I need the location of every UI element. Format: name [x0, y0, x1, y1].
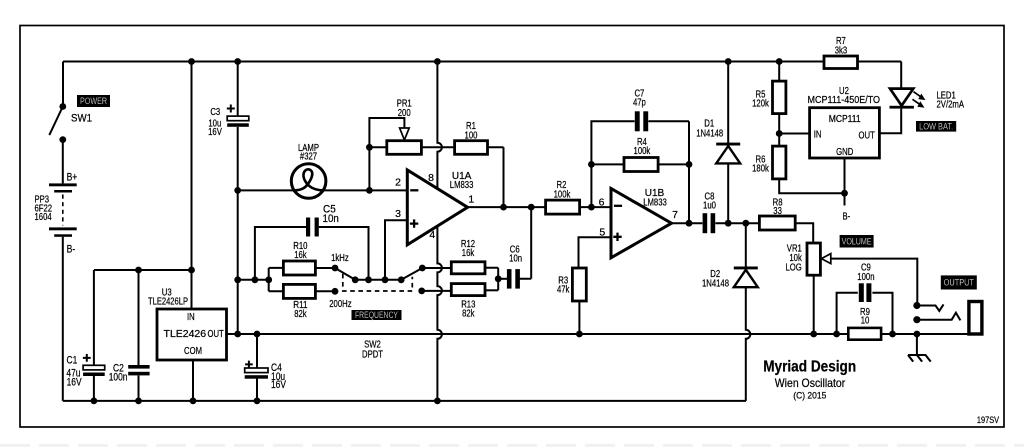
resistor R9	[848, 307, 881, 340]
switch SW2 pole1	[329, 253, 422, 310]
svg-text:16V: 16V	[67, 376, 83, 388]
svg-text:47p: 47p	[633, 98, 646, 109]
svg-text:1u0: 1u0	[703, 201, 716, 212]
svg-text:16k: 16k	[462, 248, 474, 259]
resistor R11	[283, 284, 335, 320]
svg-text:10n: 10n	[323, 213, 339, 225]
svg-text:200: 200	[398, 108, 411, 119]
svg-text:47k: 47k	[557, 285, 569, 296]
capacitor C8	[703, 191, 717, 233]
capacitor C3	[208, 62, 249, 139]
diode D1	[696, 62, 740, 224]
svg-text:LOW BAT.: LOW BAT.	[919, 121, 953, 131]
svg-text:B-: B-	[67, 243, 76, 255]
svg-text:4: 4	[429, 229, 435, 241]
svg-text:MCP111-450E/TO: MCP111-450E/TO	[808, 95, 881, 106]
resistor R6	[752, 146, 844, 193]
svg-text:B+: B+	[67, 171, 78, 183]
wire U1B output	[672, 220, 760, 227]
svg-text:TLE2426LP: TLE2426LP	[148, 296, 188, 307]
svg-text:100n: 100n	[109, 371, 128, 383]
svg-text:197SV: 197SV	[977, 415, 1000, 425]
capacitor C4	[245, 334, 287, 401]
svg-text:16V: 16V	[208, 127, 222, 138]
svg-text:8: 8	[428, 172, 434, 184]
svg-text:200Hz: 200Hz	[329, 299, 351, 310]
wire U1A pin3	[385, 220, 407, 279]
resistor R10	[283, 241, 335, 275]
OUTPUT label	[941, 275, 977, 289]
svg-text:1: 1	[468, 193, 474, 205]
svg-text:82k: 82k	[294, 309, 306, 320]
svg-text:OUT: OUT	[859, 130, 875, 141]
capacitor C2	[109, 363, 150, 401]
wire C1-C2 top	[94, 267, 195, 366]
POWER label	[77, 95, 110, 107]
wire bottom rail	[63, 398, 746, 405]
doc number 197SV	[977, 415, 1000, 425]
capacitor C6	[495, 207, 531, 289]
switch SW1	[49, 62, 92, 184]
capacitor C5	[255, 204, 369, 280]
svg-text:1kHz: 1kHz	[331, 253, 349, 264]
svg-text:IN: IN	[187, 312, 195, 323]
resistor R8	[759, 198, 813, 244]
svg-text:POWER: POWER	[80, 96, 107, 106]
battery PP3	[35, 171, 78, 401]
svg-text:100: 100	[465, 131, 478, 142]
svg-text:3k3: 3k3	[835, 45, 848, 56]
IC U3 TLE2426	[148, 62, 227, 401]
wire U1A pin4 to 0V (hops)	[437, 226, 442, 401]
resistor R12	[451, 239, 498, 290]
svg-text:C3: C3	[210, 107, 220, 118]
wire +V top rail	[63, 58, 901, 65]
svg-text:120k: 120k	[752, 98, 769, 109]
svg-text:LM833: LM833	[450, 180, 474, 191]
svg-text:(C) 2015: (C) 2015	[793, 390, 826, 400]
diode D2	[702, 223, 758, 401]
svg-text:B-: B-	[843, 212, 851, 223]
LOW BAT. label	[916, 121, 956, 132]
trimmer PR1	[366, 98, 455, 190]
capacitor C9	[837, 263, 893, 334]
svg-text:OUT: OUT	[207, 329, 223, 340]
svg-text:2V/2mA: 2V/2mA	[937, 100, 965, 111]
resistor R13	[451, 284, 498, 320]
svg-text:VOLUME: VOLUME	[842, 236, 872, 246]
svg-text:7: 7	[672, 209, 678, 221]
svg-text:10: 10	[861, 315, 870, 326]
resistor R1	[455, 121, 504, 207]
lamp LA1 #327	[238, 143, 408, 198]
title Myriad Design	[763, 358, 856, 400]
svg-text:Myriad Design: Myriad Design	[763, 358, 856, 375]
svg-text:#327: #327	[300, 152, 317, 163]
svg-text:GND: GND	[836, 147, 853, 158]
svg-text:16k: 16k	[294, 250, 306, 261]
LED1	[890, 62, 965, 111]
svg-text:OUTPUT: OUTPUT	[944, 278, 975, 288]
switch SW2 linkage (dashed)	[343, 274, 413, 361]
resistor R7	[824, 36, 858, 69]
capacitor C1	[66, 354, 104, 401]
wire mid virtual-ground rail	[227, 331, 969, 338]
resistor R4	[588, 137, 692, 172]
svg-text:82k: 82k	[462, 309, 474, 320]
svg-text:LM833: LM833	[643, 197, 667, 208]
output jack J1	[913, 302, 982, 335]
svg-text:C1: C1	[67, 355, 78, 367]
svg-text:COM: COM	[184, 346, 202, 357]
svg-text:16V: 16V	[271, 379, 287, 391]
svg-text:1N4148: 1N4148	[696, 128, 723, 139]
resistor R2	[546, 180, 580, 214]
svg-text:10n: 10n	[509, 253, 522, 264]
ground	[908, 334, 931, 362]
svg-text:100k: 100k	[554, 189, 571, 200]
bottom ruler strip	[0, 444, 1024, 447]
op-amp U1B	[599, 188, 679, 258]
svg-text:1N4148: 1N4148	[702, 279, 729, 290]
resistor R3	[557, 237, 611, 334]
svg-text:LOG: LOG	[786, 263, 802, 274]
svg-text:100n: 100n	[857, 272, 874, 283]
svg-text:3: 3	[395, 208, 401, 220]
IC U2 MCP111	[779, 86, 901, 223]
svg-text:SW1: SW1	[71, 113, 92, 125]
svg-text:6: 6	[599, 197, 605, 209]
svg-text:IN: IN	[814, 130, 822, 141]
VOLUME label	[840, 235, 874, 248]
svg-text:FREQUENCY: FREQUENCY	[355, 310, 398, 320]
FREQUENCY label	[352, 310, 402, 320]
potentiometer VR1	[786, 243, 918, 334]
svg-text:100k: 100k	[634, 146, 651, 157]
svg-text:33: 33	[773, 206, 782, 217]
wire U1A pin8 to +V (hop)	[437, 62, 441, 189]
svg-text:TLE2426: TLE2426	[164, 329, 207, 340]
wire U1A output node	[468, 204, 611, 211]
resistor R5	[752, 62, 786, 147]
svg-text:DPDT: DPDT	[362, 349, 383, 360]
svg-text:1604: 1604	[35, 212, 53, 223]
switch SW2 pole2 contacts	[418, 265, 451, 295]
op-amp U1A	[395, 170, 474, 245]
svg-text:180k: 180k	[752, 163, 769, 174]
svg-text:2: 2	[395, 177, 401, 189]
wire C3 bottom column	[234, 127, 241, 334]
wire R network left node	[238, 268, 284, 291]
svg-text:MCP111: MCP111	[829, 114, 861, 125]
svg-text:Wien Oscillator: Wien Oscillator	[775, 377, 846, 390]
capacitor C7	[591, 88, 689, 223]
